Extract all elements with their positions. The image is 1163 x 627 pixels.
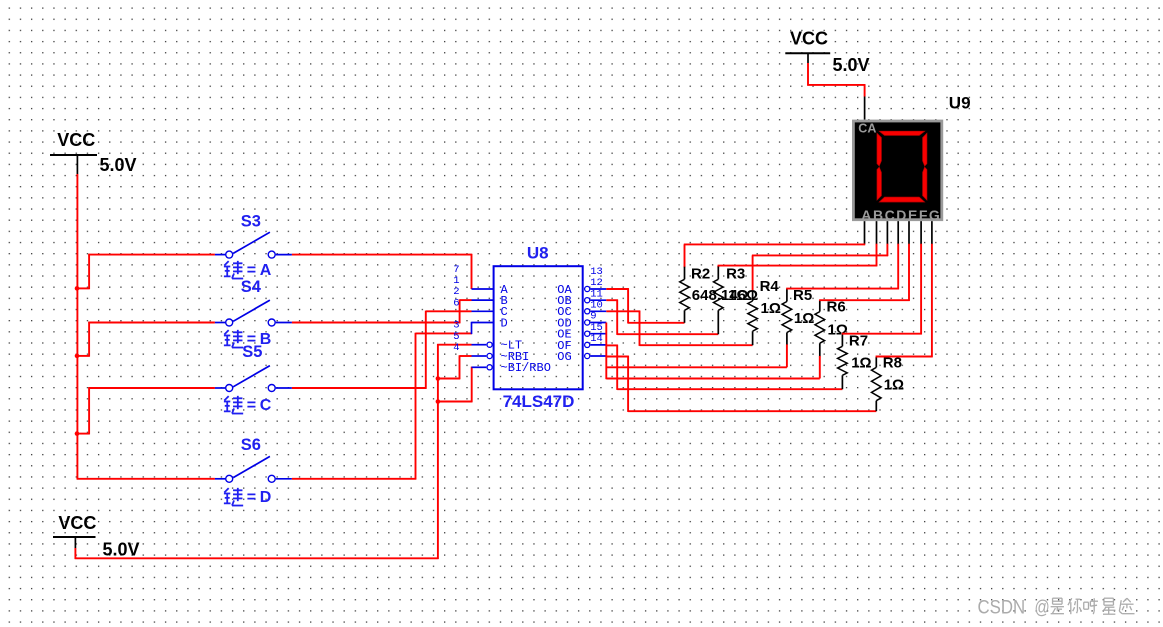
svg-text:R7: R7 [849, 332, 868, 349]
junction (RBI tap) [436, 376, 441, 381]
svg-text:=: = [247, 397, 256, 414]
label R4 [760, 278, 780, 295]
svg-text:1Ω: 1Ω [728, 287, 748, 304]
wire display A to R2 top [684, 221, 865, 244]
label R8 [883, 354, 902, 371]
svg-text:9: 9 [590, 311, 596, 323]
label U9 [949, 93, 971, 112]
svg-text:S6: S6 [241, 436, 261, 454]
switch S6 [215, 456, 292, 482]
wire S6 to U8 pin D [292, 333, 472, 480]
U8 output pin OE stub with bubble [585, 331, 607, 336]
U8 pin ~RBI stub with bubble [472, 353, 493, 358]
U8 output pin OD stub with bubble [585, 320, 607, 325]
U8 output pin OG stub with bubble [585, 353, 607, 358]
svg-text:74LS47D: 74LS47D [503, 392, 575, 411]
wire VCC rail left [77, 174, 215, 479]
svg-text:CA: CA [858, 122, 876, 136]
resistor R8 [872, 357, 882, 411]
svg-text:VCC: VCC [790, 29, 828, 49]
wire OC to R4 bottom [606, 311, 752, 346]
wire display D to R5 top [786, 221, 899, 289]
svg-text:11: 11 [590, 288, 603, 300]
power VCC top-left 5.0V [50, 130, 137, 175]
svg-text:R3: R3 [726, 265, 745, 282]
label S6 [241, 436, 261, 454]
value R4 1&#937; [761, 300, 781, 317]
svg-text:2: 2 [453, 286, 459, 298]
svg-text:ABCDEFG: ABCDEFG [861, 207, 941, 223]
U8 pin ~LT stub with bubble [472, 342, 493, 347]
watermark text [978, 597, 1135, 619]
svg-text:R2: R2 [691, 265, 710, 282]
svg-text:U9: U9 [949, 93, 971, 112]
svg-text:VCC: VCC [57, 130, 95, 150]
switch S4 [215, 300, 292, 326]
svg-text:5: 5 [453, 331, 459, 343]
svg-text:1: 1 [453, 275, 459, 287]
svg-text:1Ω: 1Ω [761, 300, 781, 317]
svg-text:C: C [260, 397, 272, 414]
svg-text:3: 3 [453, 320, 459, 332]
U8 pin numbers right (13 12 11 10 9 15 14) [590, 266, 603, 345]
svg-text:5.0V: 5.0V [103, 539, 140, 559]
svg-text:D: D [260, 489, 272, 506]
U8 pin ~BI/RBO stub with bubble [472, 365, 493, 370]
svg-text:S5: S5 [242, 343, 262, 361]
wire S5 to U8 pin C [292, 311, 472, 389]
label S5 [242, 343, 262, 361]
wire OF to R7 bottom [606, 345, 842, 390]
wire OD down to R6 row [606, 323, 820, 380]
svg-text:10: 10 [590, 300, 603, 312]
svg-text:S3: S3 [241, 213, 261, 231]
junction on rail (S3 tap) [75, 286, 80, 291]
svg-text:6: 6 [453, 297, 459, 309]
resistor R7 [838, 334, 848, 389]
wire tap to S3 [77, 254, 215, 289]
U8 output pin OC stub with bubble [585, 309, 607, 314]
U8 pin name labels left [501, 283, 551, 375]
power VCC top-right 5.0V [785, 29, 869, 75]
svg-text:OG: OG [557, 350, 571, 364]
label S4 [241, 278, 262, 296]
wire display B to R3 top [718, 221, 878, 266]
label R5 [793, 287, 812, 304]
resistor R2 [680, 244, 690, 322]
wire display F to R7 top [842, 221, 922, 334]
switch S3 [215, 232, 292, 258]
value R3 1&#937; [728, 287, 748, 304]
svg-text:4: 4 [453, 342, 459, 354]
junction on rail (S5 tap) [75, 431, 80, 436]
svg-text:A: A [260, 262, 272, 279]
svg-text:R5: R5 [793, 287, 812, 304]
resistor R5 [782, 289, 792, 368]
svg-text:1Ω: 1Ω [851, 354, 871, 371]
label R2 [691, 265, 710, 282]
wire VCC to display CA pin [807, 63, 865, 120]
svg-text:1Ω: 1Ω [828, 321, 848, 338]
wire OA to R2 bottom [606, 288, 684, 323]
U8 pin numbers left (7 1 2 6 3 5 4) [453, 264, 459, 354]
wire S4 to U8 pin B [292, 299, 472, 323]
svg-text:13: 13 [590, 266, 603, 278]
wire tap to S4 [77, 322, 215, 357]
value R7 1&#937; [851, 354, 871, 371]
svg-text:5.0V: 5.0V [100, 155, 137, 175]
label key = B [224, 330, 271, 348]
label key = A [224, 261, 272, 279]
wire OG to R8 bottom [606, 356, 876, 412]
wire OB to R3 bottom [606, 300, 718, 335]
wire VCC bottom to U8 enables [75, 344, 472, 559]
wire display E to R6 top [819, 221, 910, 301]
label R6 [827, 299, 846, 316]
resistor R4 [748, 255, 758, 345]
label U8 [527, 244, 549, 263]
label key = C [224, 396, 272, 414]
U8 pin name labels right [557, 283, 572, 364]
wire OE to R5 row [606, 366, 787, 368]
U8 output pin OB stub with bubble [585, 298, 607, 303]
value R8 1&#937; [884, 376, 904, 393]
wire display C to R4 top [752, 221, 888, 256]
label R3 [726, 265, 745, 282]
label S3 [241, 213, 261, 231]
wire junction to ~RBI [437, 355, 472, 379]
svg-text:5.0V: 5.0V [833, 55, 870, 75]
svg-text:@: @ [1035, 597, 1050, 619]
svg-text:S4: S4 [241, 278, 262, 296]
svg-text:R4: R4 [760, 278, 780, 295]
svg-text:=: = [247, 262, 256, 279]
resistor R6 [815, 300, 825, 378]
svg-text:CSDN: CSDN [978, 597, 1026, 619]
wire junction to ~BI/RBO [437, 367, 473, 403]
svg-text:~BI/RBO: ~BI/RBO [501, 361, 551, 375]
svg-text:U8: U8 [527, 244, 549, 263]
U8 output pin OF stub with bubble [585, 342, 607, 347]
display U9 seven-segment (CA) [853, 121, 941, 223]
wire display G to R8 top [876, 221, 933, 357]
value R6 1&#937; [828, 321, 848, 338]
switch S5 [215, 366, 292, 392]
resistor R3 [714, 266, 724, 335]
junction (BI/RBO tap) [436, 399, 441, 404]
op-chip U8 74LS47D body [494, 266, 583, 389]
wire S3 to U8 pin A [292, 254, 472, 289]
U8 pin B stub [472, 299, 494, 301]
svg-text:D: D [501, 316, 508, 330]
label key = D [224, 488, 271, 506]
svg-text:=: = [247, 489, 256, 506]
wire tap to S5 [77, 387, 215, 434]
value R5 1&#937; [794, 310, 814, 327]
svg-text:1Ω: 1Ω [884, 376, 904, 393]
U8 output pin OA stub with bubble [585, 286, 607, 291]
svg-text:1Ω: 1Ω [794, 310, 814, 327]
power VCC bottom-left 5.0V [53, 513, 140, 559]
U8 pin C stub [472, 310, 494, 312]
value R2 648.146&#937; [692, 287, 758, 304]
junction on rail (S4 tap) [75, 354, 80, 359]
label 74LS47D [503, 392, 575, 411]
svg-text:14: 14 [590, 333, 603, 345]
U8 pin A stub [472, 288, 494, 290]
U8 pin D stub [472, 322, 494, 334]
label R7 [849, 332, 868, 349]
svg-text:VCC: VCC [58, 513, 96, 533]
